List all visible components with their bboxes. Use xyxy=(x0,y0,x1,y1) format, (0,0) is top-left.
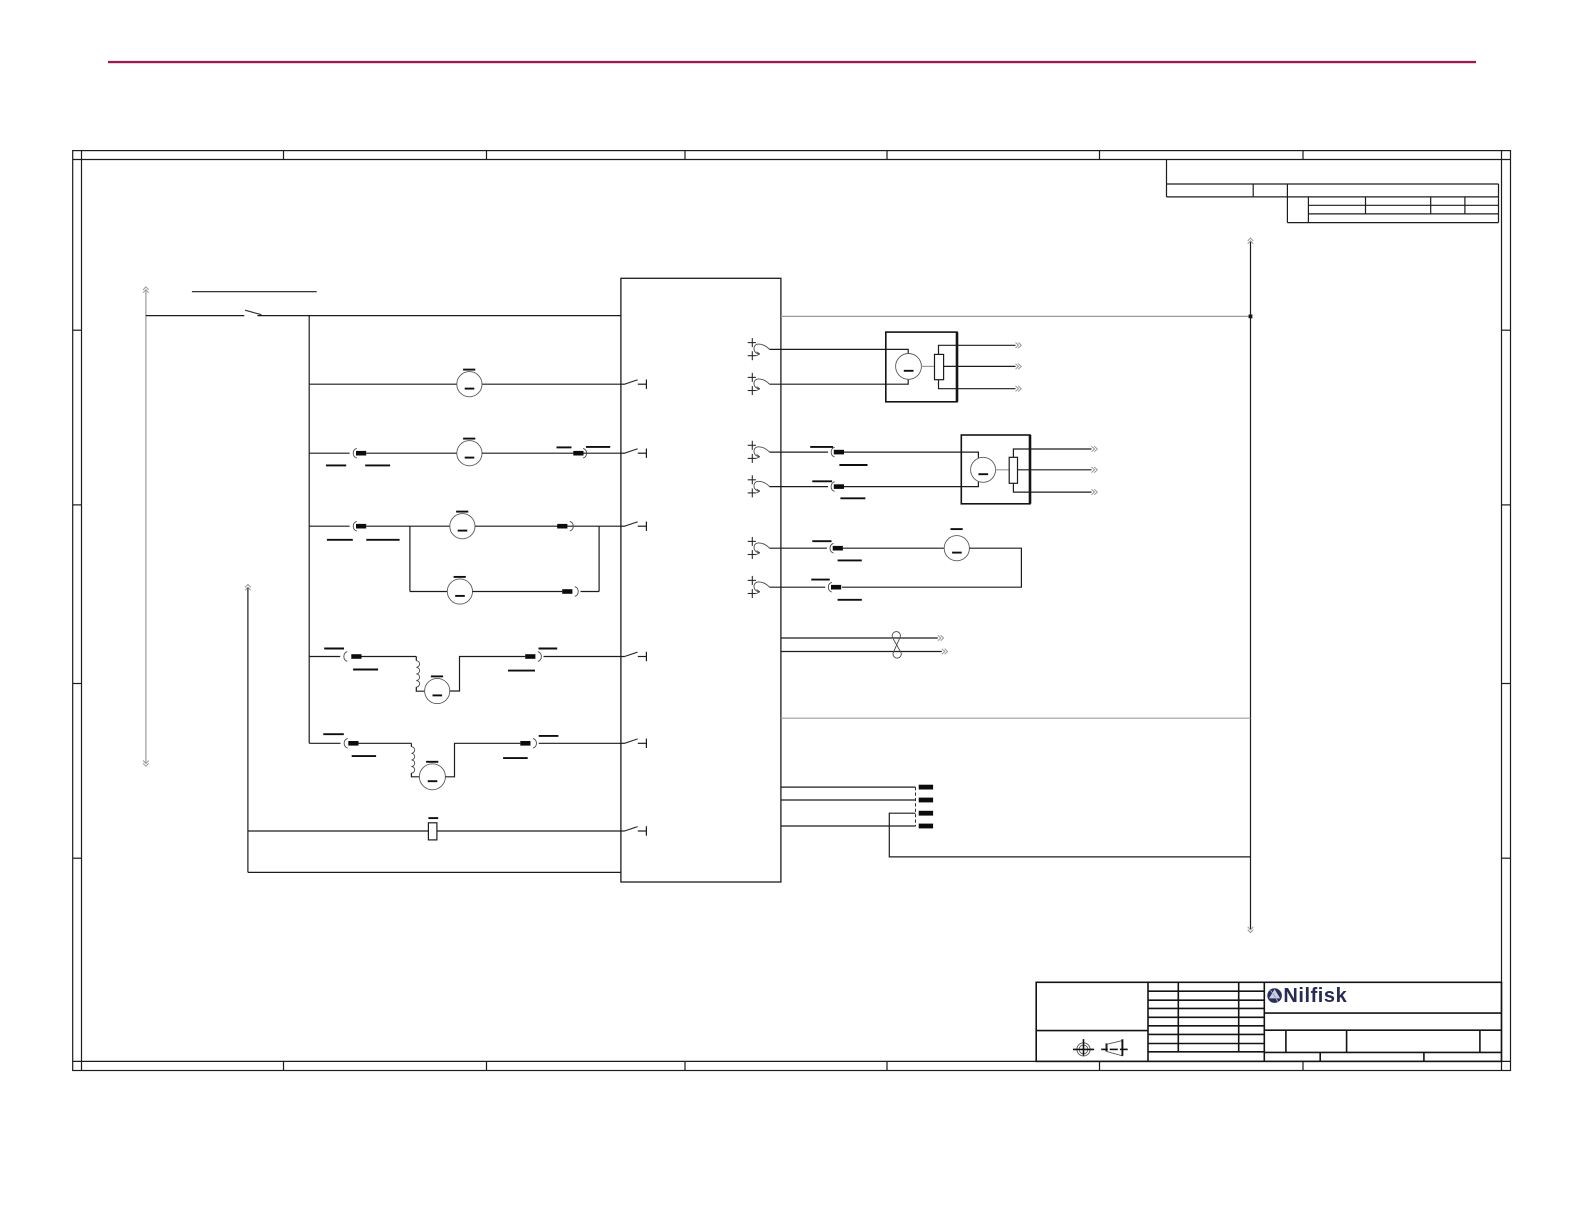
wire pin2 xyxy=(781,799,916,801)
wire parallel branch right vertical xyxy=(598,526,600,591)
connector arrow A6 xyxy=(748,576,770,598)
connector X3a xyxy=(353,448,366,458)
connector X7b xyxy=(520,738,536,748)
actuator A2 motor xyxy=(971,457,996,482)
Nilfisk logo emblem xyxy=(1267,988,1282,1003)
terminal pin 4 xyxy=(919,824,933,829)
wire pump return xyxy=(770,586,826,588)
connector arrow A4 xyxy=(748,475,770,497)
wire row7 segment a xyxy=(309,742,340,744)
inductor L7 winding xyxy=(411,747,414,773)
resistor R2 xyxy=(1009,457,1017,483)
wire pump feed segment b xyxy=(843,547,944,549)
wire pump loop xyxy=(842,548,1021,587)
controller U1 box xyxy=(621,278,781,882)
motor M6 xyxy=(425,676,450,703)
wire row4 segment a xyxy=(309,525,349,527)
label X9a dashes xyxy=(810,447,867,465)
wire row4 segment c xyxy=(475,525,621,527)
wire actuator A2 out2 xyxy=(1018,469,1092,471)
connector X6b xyxy=(525,652,541,662)
terminal pin 2 xyxy=(919,798,933,803)
wire right bus vertical xyxy=(1250,242,1252,929)
wire actuator A1 out1 xyxy=(939,345,1016,354)
inductor L6 winding xyxy=(416,661,419,687)
label X6a dashes xyxy=(324,649,378,670)
wire row8 right xyxy=(437,830,621,832)
wire pin4 xyxy=(781,825,916,827)
switch S4 xyxy=(620,522,646,531)
node L1 arrow xyxy=(143,287,149,293)
wire actuator A2 link xyxy=(996,469,1010,471)
motor M2 xyxy=(457,370,482,397)
wire row6 segment a xyxy=(309,656,340,658)
motor M3 xyxy=(457,439,482,466)
connector X9a xyxy=(831,447,844,457)
wire row6 motor out xyxy=(450,657,525,692)
wire net grey long xyxy=(781,717,1251,719)
terminal pin 3 xyxy=(919,811,933,816)
node A2 out1 arrow xyxy=(1092,446,1098,452)
wire row6 coil drop xyxy=(415,657,417,661)
wire row4 segment b xyxy=(366,525,450,527)
switch S8 xyxy=(620,826,646,835)
label X7a dashes xyxy=(323,734,376,756)
wire row3 segment b xyxy=(366,452,457,454)
node A2 out2 arrow xyxy=(1092,467,1098,473)
node A1 out3 arrow xyxy=(1016,386,1022,392)
resistor R1 xyxy=(935,354,944,379)
wire actuator A2 out3 xyxy=(1013,483,1091,492)
connector arrow A5 xyxy=(748,537,770,559)
label X3b dashes xyxy=(557,446,611,449)
projection symbol circle xyxy=(1073,1039,1094,1056)
connector X6a xyxy=(344,652,362,662)
wire actuator A1 link xyxy=(921,365,934,367)
connector X7a xyxy=(344,738,358,748)
label X9b dashes xyxy=(812,481,865,498)
wire bottom feed xyxy=(248,871,621,873)
label X6b dashes xyxy=(508,649,557,671)
switch S2 xyxy=(620,380,646,389)
label X10b dashes xyxy=(811,580,862,600)
wire actuator A1 out3 xyxy=(939,380,1016,389)
wire twisted pair bottom xyxy=(781,651,942,653)
fuse F1 xyxy=(428,823,437,840)
wire row8 xyxy=(248,830,429,832)
node A1 out1 arrow xyxy=(1016,343,1022,349)
twisted pair twist symbol xyxy=(892,632,901,658)
node twisted pair bottom arrow xyxy=(942,649,948,655)
connector X10a xyxy=(830,543,843,553)
wire row7 segment c xyxy=(539,742,621,744)
wire actuator2 feed bottom segment a xyxy=(770,486,829,488)
wire row5 segment c xyxy=(581,591,600,593)
wire actuator1 feed bottom xyxy=(770,375,909,384)
cable dashed link xyxy=(915,787,917,826)
connector X9b xyxy=(831,482,844,492)
switch S6 xyxy=(620,652,646,661)
wire row7 segment b xyxy=(359,742,412,744)
node right bus top arrow xyxy=(1248,238,1254,244)
wire actuator1 feed top xyxy=(770,349,909,357)
node right bus bottom arrow xyxy=(1248,927,1254,933)
connector arrow A2 xyxy=(748,373,770,395)
wire net row1 grey xyxy=(781,315,1251,317)
wire row2 xyxy=(309,383,621,385)
wire actuator A1 out2 xyxy=(944,365,1016,367)
node L1 bottom arrow xyxy=(143,761,149,767)
actuator A1 motor xyxy=(896,354,922,380)
node twisted pair top arrow xyxy=(938,635,944,641)
connector X3b xyxy=(573,448,586,458)
wire row6 segment b xyxy=(362,656,417,658)
switch S7 xyxy=(620,739,646,748)
wire row7 motor out xyxy=(445,743,520,777)
connector X4b xyxy=(557,521,573,531)
wire row5 segment b xyxy=(472,591,562,593)
label X4a dashes xyxy=(327,539,400,541)
connector X4a xyxy=(353,521,366,531)
wire actuator A2 out1 xyxy=(1013,449,1091,457)
svg-text:Nilfisk: Nilfisk xyxy=(1283,985,1347,1007)
wire row6 segment c xyxy=(544,656,621,658)
wire pump feed segment a xyxy=(770,547,827,549)
label X3a dashes xyxy=(326,464,390,466)
motor M8 xyxy=(944,529,969,561)
top rule xyxy=(108,61,1476,63)
label X10a dashes xyxy=(812,541,862,560)
title block outline xyxy=(1036,982,1501,1061)
wire row5 segment a xyxy=(410,591,448,593)
wire row1 left xyxy=(146,315,244,317)
terminal pin 1 xyxy=(919,785,933,790)
wire pin1 xyxy=(781,786,916,788)
node A1 out2 arrow xyxy=(1016,364,1022,370)
wire row3 segment a xyxy=(309,452,349,454)
wire row1 right xyxy=(257,315,621,317)
connector X10b xyxy=(828,582,841,592)
node feed arrow xyxy=(245,584,251,590)
wire row7 coil to motor xyxy=(411,773,420,777)
switch S1 key switch blade xyxy=(245,310,261,315)
wire parallel branch left vertical xyxy=(409,526,411,591)
motor M4 xyxy=(450,512,475,539)
label X7b dashes xyxy=(503,736,558,758)
wire row7 coil drop xyxy=(410,743,412,746)
wire actuator2 feed bottom segment b xyxy=(844,478,978,487)
wire actuator2 feed top segment b xyxy=(844,452,978,462)
wire row3 segment c xyxy=(482,452,621,454)
motor M7 xyxy=(419,762,445,790)
revision table top right xyxy=(1167,160,1499,223)
motor M5 xyxy=(447,577,472,604)
junction row1 to vertical xyxy=(1249,315,1253,319)
actuator A2 box xyxy=(961,435,1030,504)
title block parts table xyxy=(1148,982,1264,1061)
connector arrow A1 xyxy=(748,338,770,360)
wire pin3 branch xyxy=(889,813,1250,857)
wire twisted pair top xyxy=(781,637,938,639)
switch S3 xyxy=(620,449,646,458)
node A2 out3 arrow xyxy=(1092,489,1098,495)
wire bus vertical xyxy=(308,316,310,744)
actuator A1 box xyxy=(886,332,957,402)
projection symbol cone xyxy=(1101,1039,1128,1056)
wire battery negative rail xyxy=(145,291,147,763)
title block right rows xyxy=(1264,1013,1501,1061)
wire feed vertical xyxy=(247,588,249,872)
label line key switch xyxy=(192,291,317,293)
wire actuator2 feed top segment a xyxy=(770,451,829,453)
label F1 dash xyxy=(428,817,438,819)
title block left divider xyxy=(1036,1030,1148,1032)
wire row6 coil to motor xyxy=(416,687,424,691)
connector arrow A3 xyxy=(748,441,770,463)
connector X5b xyxy=(562,587,578,597)
